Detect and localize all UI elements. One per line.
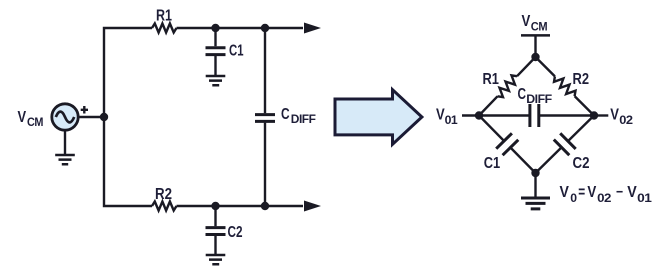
node bottom1 (211, 202, 219, 210)
wire bridge top-right (536, 57, 595, 116)
ground under source (55, 155, 75, 164)
svg-text:02: 02 (619, 113, 633, 127)
wire C2 stem (214, 206, 216, 254)
node bridge right (590, 111, 598, 119)
capacitor C2 (206, 228, 226, 235)
capacitor CDIFF bridge (530, 104, 539, 127)
ground under C2 (206, 255, 226, 264)
svg-text:V: V (587, 184, 596, 201)
wire Cdiff stem (264, 28, 266, 206)
VCM rail bar (521, 34, 550, 37)
wire bridge top-left (479, 57, 536, 116)
capacitor CDIFF left (255, 115, 275, 122)
wire source to rail (78, 116, 104, 118)
svg-text:CM: CM (531, 20, 548, 34)
wire bridge bottom-left (479, 116, 536, 174)
svg-text:V: V (18, 109, 27, 126)
node bridge top (531, 53, 539, 61)
block arrow (335, 90, 422, 145)
svg-text:01: 01 (445, 113, 458, 127)
svg-text:0: 0 (570, 191, 577, 205)
resistor R1 (152, 24, 177, 33)
wire bridge bottom-right (536, 116, 595, 174)
arrow top output (304, 23, 321, 34)
svg-text:C1: C1 (229, 43, 244, 60)
svg-text:01: 01 (637, 191, 652, 205)
ground bridge (521, 198, 550, 209)
wire bridge horizontal (479, 114, 594, 116)
resistor R2 (152, 202, 177, 211)
svg-text:C: C (518, 86, 527, 103)
wire bridge ground stem (534, 173, 536, 197)
plus sign (81, 106, 88, 114)
resistor R2 bridge (554, 76, 576, 96)
resistor R1 bridge (498, 75, 518, 97)
node top1 (211, 24, 219, 32)
capacitor C2 bridge (554, 133, 576, 155)
svg-text:R2: R2 (155, 186, 172, 203)
svg-text:V: V (560, 184, 570, 201)
svg-text:C2: C2 (228, 224, 243, 241)
capacitor C1 (206, 48, 226, 55)
arrow bottom output (304, 201, 321, 212)
svg-text:R1: R1 (156, 8, 172, 25)
svg-text:R2: R2 (573, 71, 590, 88)
source VCM circle (52, 104, 78, 130)
node bridge bottom (531, 169, 539, 177)
svg-text:C: C (281, 106, 290, 123)
node bottom2 (261, 202, 269, 210)
wire VCM bar to node (534, 35, 536, 57)
svg-text:C2: C2 (573, 155, 590, 172)
svg-text:CM: CM (27, 115, 43, 129)
svg-text:C1: C1 (484, 155, 500, 172)
svg-text:–: – (616, 183, 623, 200)
wire top branch left circuit (104, 28, 303, 117)
svg-text:DIFF: DIFF (526, 92, 551, 106)
wire bottom branch left circuit (104, 117, 303, 206)
equation V0 = V02 - V01 (560, 183, 653, 205)
wire V02 lead (594, 114, 608, 116)
svg-text:V: V (522, 13, 531, 30)
svg-text:R1: R1 (483, 71, 499, 88)
svg-text:DIFF: DIFF (291, 112, 316, 126)
capacitor C1 bridge (496, 133, 518, 155)
source sine wave (56, 112, 74, 123)
node bridge left (475, 111, 483, 119)
node top2 (261, 24, 269, 32)
svg-text:=: = (578, 184, 585, 201)
svg-text:V: V (627, 184, 637, 201)
wire C1 stem (214, 28, 216, 75)
wire source ground stem (64, 130, 66, 154)
wire V01 lead (462, 114, 479, 116)
node source rail (100, 113, 108, 121)
ground under C1 (206, 76, 226, 85)
svg-text:V: V (610, 106, 619, 123)
svg-text:02: 02 (597, 191, 612, 205)
